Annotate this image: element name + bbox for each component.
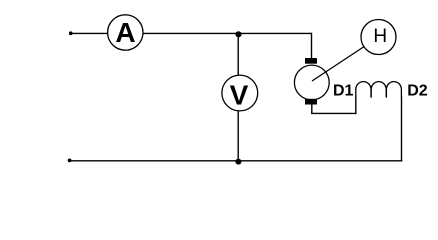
ammeter A	[108, 15, 143, 50]
wire bottom rail (left terminal to D2 lead)	[70, 160, 403, 162]
terminal (bottom-left input)	[68, 159, 72, 163]
voltmeter V	[222, 75, 258, 111]
shaft line to tachometer H	[312, 47, 364, 82]
wire drop from top rail to motor top brush	[311, 33, 313, 59]
brush (bottom)	[305, 99, 317, 105]
svg-text:A: A	[115, 17, 135, 48]
brush (top)	[305, 58, 317, 64]
wire voltmeter bottom lead	[237, 110, 239, 161]
wire field winding right lead down to bottom rail	[401, 97, 403, 162]
svg-text:V: V	[230, 80, 249, 111]
svg-text:D2: D2	[407, 83, 428, 100]
motor armature D1	[294, 65, 329, 100]
junction node N2 (bottom rail / voltmeter)	[235, 159, 241, 165]
wire brush to field winding horizontal	[311, 112, 356, 114]
tachometer H	[361, 20, 396, 55]
inductor D2 (field winding)	[356, 82, 402, 97]
wire field winding left lead	[355, 97, 357, 115]
wire top rail (node N1 to corner above motor)	[239, 32, 312, 34]
svg-text:D1: D1	[333, 83, 354, 100]
junction node N1 (top rail / voltmeter)	[235, 31, 241, 37]
svg-text:H: H	[373, 26, 387, 47]
wire motor bottom brush down	[311, 104, 313, 113]
wire voltmeter top lead	[237, 33, 239, 76]
wire top rail (left terminal to ammeter)	[71, 32, 110, 34]
terminal (top-left input)	[69, 31, 73, 35]
wire top rail (ammeter to node N1)	[141, 32, 239, 34]
